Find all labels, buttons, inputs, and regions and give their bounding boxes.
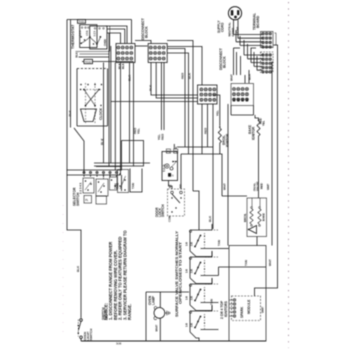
svg-text:COM: COM bbox=[168, 216, 172, 222]
svg-text:2-B: 2-B bbox=[191, 242, 194, 246]
svg-text:LAMP: LAMP bbox=[152, 295, 156, 305]
wire bbox=[175, 147, 177, 149]
svg-text:BROIL: BROIL bbox=[243, 213, 247, 222]
scan artifact dotted line right bbox=[288, 2, 290, 348]
switch surface valve group 3 bbox=[190, 278, 212, 284]
enclosure box bbox=[229, 246, 266, 342]
svg-text:WHT: WHT bbox=[155, 325, 159, 332]
wire RED drop bbox=[207, 104, 209, 147]
svg-text:NC: NC bbox=[168, 184, 172, 188]
clock panel box bbox=[77, 68, 108, 70]
svg-text:WHT: WHT bbox=[222, 183, 226, 190]
resistor broil ignitor bbox=[219, 126, 221, 128]
wire bottom border bbox=[80, 339, 82, 342]
wire bbox=[151, 63, 198, 96]
svg-text:BLK: BLK bbox=[248, 73, 252, 80]
selector cell 1 bbox=[83, 178, 94, 193]
selector cell 2 bbox=[96, 179, 108, 196]
wire bbox=[67, 174, 121, 176]
lamp oven lamp bbox=[154, 308, 165, 319]
wire bbox=[189, 230, 191, 251]
svg-text:NO: NO bbox=[179, 184, 183, 188]
plug P1 supply cord bbox=[228, 7, 241, 20]
svg-text:1-R: 1-R bbox=[186, 323, 189, 327]
wire bbox=[79, 56, 110, 58]
svg-text:YEL: YEL bbox=[137, 128, 141, 134]
wire bbox=[189, 311, 191, 332]
wire bbox=[258, 150, 260, 198]
wire bbox=[180, 154, 182, 189]
wire bbox=[201, 104, 203, 154]
connector disconnect block 3 bbox=[198, 85, 218, 104]
indicator lamp contacts bbox=[86, 90, 100, 106]
wire long collector bbox=[111, 101, 198, 103]
clock panel dashed guides bbox=[85, 83, 87, 124]
svg-text:30B: 30B bbox=[116, 342, 121, 346]
wire left frame inner bbox=[70, 20, 72, 128]
wire group exit right bbox=[201, 329, 219, 331]
wire bbox=[173, 144, 175, 149]
wire supply maze bbox=[234, 34, 263, 36]
wire bbox=[96, 166, 122, 168]
wire bbox=[114, 63, 116, 171]
wire bbox=[135, 41, 151, 44]
svg-text:1 2 3 4 5: 1 2 3 4 5 bbox=[79, 182, 83, 194]
wire bbox=[129, 63, 131, 164]
wire left frame outer bbox=[67, 20, 81, 319]
wire bbox=[82, 61, 84, 63]
svg-text:BLK: BLK bbox=[121, 63, 125, 69]
thermostat TOD header box bbox=[78, 20, 86, 24]
selector cell lower bbox=[96, 196, 107, 204]
svg-text:4 5 6: 4 5 6 bbox=[86, 30, 89, 36]
svg-text:WHT: WHT bbox=[230, 74, 234, 81]
wire bbox=[222, 195, 247, 197]
selector contact top row bbox=[83, 171, 85, 173]
svg-text:BAKE: BAKE bbox=[262, 213, 266, 221]
wire valve exit to border bbox=[190, 332, 199, 341]
clock motor trapezoid bbox=[81, 109, 97, 122]
wire bbox=[193, 191, 199, 230]
coil bake solenoid bbox=[259, 207, 261, 209]
wire bbox=[258, 138, 260, 150]
selector cell 4 bbox=[118, 170, 129, 193]
wire YEL to broil ignitor bbox=[213, 95, 220, 126]
T.O.D. contacts bbox=[165, 164, 169, 168]
wire bbox=[135, 45, 148, 47]
svg-text:BLOCK: BLOCK bbox=[222, 56, 226, 68]
svg-text:YEL: YEL bbox=[215, 110, 219, 116]
svg-text:BLK: BLK bbox=[208, 215, 212, 222]
svg-text:TAN: TAN bbox=[244, 260, 248, 266]
wire bbox=[163, 63, 165, 131]
wire bbox=[251, 198, 253, 207]
svg-text:RED: RED bbox=[260, 183, 264, 189]
wire group exit right bbox=[201, 302, 219, 304]
svg-text:IGNITOR: IGNITOR bbox=[252, 126, 256, 140]
svg-text:BLK: BLK bbox=[76, 265, 80, 272]
wire bus y147 bbox=[177, 147, 213, 229]
svg-text:MODULE: MODULE bbox=[247, 299, 251, 314]
label TOD box bbox=[84, 59, 93, 63]
wire bbox=[94, 162, 150, 164]
svg-text:OVEN: OVEN bbox=[104, 39, 107, 46]
wire bbox=[107, 33, 121, 44]
wire bbox=[167, 53, 189, 154]
connector disconnect block 1 bbox=[116, 44, 135, 63]
spark module terminals bbox=[233, 299, 236, 302]
svg-text:TAN: TAN bbox=[210, 299, 214, 305]
svg-text:RANGE.: RANGE. bbox=[127, 304, 132, 320]
svg-text:THERMOSTAT: THERMOSTAT bbox=[71, 24, 75, 49]
wire staircase link bbox=[190, 305, 212, 311]
svg-text:1 2 3: 1 2 3 bbox=[94, 30, 96, 36]
connector disconnect block 2 bbox=[148, 44, 167, 63]
wire bbox=[67, 141, 122, 171]
svg-text:BLK: BLK bbox=[68, 110, 72, 117]
connector control console T3 bbox=[233, 88, 236, 91]
switch surface valve group 2 bbox=[190, 251, 212, 257]
svg-text:N: N bbox=[172, 175, 174, 178]
svg-text:2-B: 2-B bbox=[191, 296, 194, 300]
wire bbox=[167, 47, 202, 86]
svg-text:BOARD: BOARD bbox=[256, 15, 260, 28]
svg-text:TAN: TAN bbox=[114, 183, 118, 189]
svg-text:BLK: BLK bbox=[74, 52, 78, 57]
svg-text:RED: RED bbox=[181, 72, 185, 79]
wire bbox=[156, 63, 198, 99]
svg-text:PL: PL bbox=[85, 198, 89, 202]
svg-text:1-R: 1-R bbox=[186, 269, 189, 273]
selector TAN loop bbox=[130, 169, 142, 193]
svg-text:BLK: BLK bbox=[188, 72, 192, 79]
selector cell pilot bbox=[84, 196, 92, 204]
svg-text:SWITCH: SWITCH bbox=[89, 329, 93, 341]
door lock switch bbox=[168, 189, 185, 216]
svg-text:TOD: TOD bbox=[78, 20, 84, 24]
svg-text:1 2 3: 1 2 3 bbox=[80, 30, 82, 36]
wire staircase link bbox=[190, 251, 212, 257]
spark module box bbox=[232, 296, 261, 321]
svg-text:TOD: TOD bbox=[85, 60, 92, 64]
wire bbox=[103, 174, 105, 179]
svg-text:1-R: 1-R bbox=[186, 296, 189, 300]
wire top edge bbox=[67, 19, 132, 21]
wire bbox=[133, 63, 135, 167]
svg-text:2-B: 2-B bbox=[191, 269, 194, 273]
svg-text:TAN: TAN bbox=[131, 183, 135, 189]
wire bus pair bbox=[108, 33, 110, 167]
svg-text:GRND: GRND bbox=[231, 27, 235, 37]
svg-text:YEL: YEL bbox=[262, 120, 266, 126]
thermostat contact box A bbox=[80, 25, 97, 48]
svg-text:TAN: TAN bbox=[217, 240, 221, 246]
control console box bbox=[231, 84, 254, 106]
wire thermostat bottoms bbox=[76, 51, 110, 53]
wire bbox=[169, 181, 173, 190]
wire bbox=[167, 49, 185, 148]
svg-text:CORD: CORD bbox=[221, 22, 225, 32]
svg-text:IGNITOR: IGNITOR bbox=[226, 133, 230, 147]
wire plug stem bbox=[233, 20, 235, 35]
T.O.D. switch box bbox=[162, 152, 178, 181]
switch surface valve group 1 bbox=[190, 224, 212, 230]
svg-text:RED: RED bbox=[204, 127, 208, 134]
svg-text:SWITCH: SWITCH bbox=[161, 204, 165, 217]
wire selector loop bbox=[94, 141, 144, 167]
valve triangle bbox=[249, 226, 257, 234]
svg-text:2-B: 2-B bbox=[191, 323, 194, 327]
svg-text:CLOCK: CLOCK bbox=[99, 107, 103, 120]
valve solenoid box bbox=[247, 198, 267, 237]
wire bbox=[255, 115, 259, 121]
wire bbox=[245, 70, 249, 83]
wire bbox=[212, 104, 214, 147]
svg-text:IGNITORS: IGNITORS bbox=[224, 300, 228, 317]
coil broil solenoid bbox=[251, 207, 253, 209]
wire lamp bottom lead bbox=[159, 318, 161, 341]
svg-text:OPEN/CLOSED TO START: OPEN/CLOSED TO START bbox=[179, 241, 183, 304]
thermostat contact box B bbox=[90, 26, 107, 49]
wire bbox=[189, 284, 191, 305]
T.O.D. terminal tabs bbox=[166, 149, 170, 153]
switch S1 oven light switch bbox=[80, 319, 83, 322]
wire clock drop diagonal bbox=[74, 128, 84, 174]
wire bbox=[120, 63, 122, 176]
svg-text:BLOCK: BLOCK bbox=[145, 26, 149, 38]
switch surface valve group 4 bbox=[190, 305, 212, 311]
selector cell 3 bbox=[110, 177, 118, 190]
T.O.D. lower mark bbox=[168, 173, 171, 176]
wire box around disconnect block 1 bbox=[106, 26, 127, 43]
svg-text:1-R: 1-R bbox=[186, 242, 189, 246]
ground symbol bbox=[165, 312, 167, 314]
wire tan to spark box bbox=[219, 248, 230, 250]
wire bbox=[146, 292, 189, 341]
wire bus right B bbox=[272, 62, 274, 246]
svg-text:RED: RED bbox=[161, 133, 165, 140]
wire bbox=[107, 29, 125, 44]
svg-text:WHT: WHT bbox=[268, 259, 272, 266]
wire staircase link bbox=[190, 278, 212, 284]
wire bus bbox=[103, 63, 105, 164]
wire bbox=[160, 63, 162, 131]
wire WHT drop bbox=[227, 104, 229, 246]
resistor bake ignitor bbox=[258, 119, 260, 121]
svg-text:WHT: WHT bbox=[266, 183, 270, 190]
wire group exit right bbox=[201, 275, 219, 277]
connector terminal board T2 bbox=[261, 52, 274, 73]
wire bbox=[121, 175, 123, 191]
scan artifact dotted line left bbox=[62, 205, 64, 340]
wire bus y154 bbox=[181, 154, 222, 196]
wire bbox=[189, 257, 191, 278]
wire bus right A bbox=[255, 45, 278, 296]
connector terminal board T1 bbox=[261, 32, 274, 48]
wire bbox=[234, 48, 241, 75]
svg-text:BLK: BLK bbox=[149, 84, 153, 91]
svg-text:WHT: WHT bbox=[261, 306, 265, 313]
wire lamp top lead bbox=[159, 292, 161, 308]
wire group exit right bbox=[201, 248, 219, 250]
wire bbox=[219, 146, 221, 154]
svg-text:SPARK: SPARK bbox=[240, 306, 244, 318]
